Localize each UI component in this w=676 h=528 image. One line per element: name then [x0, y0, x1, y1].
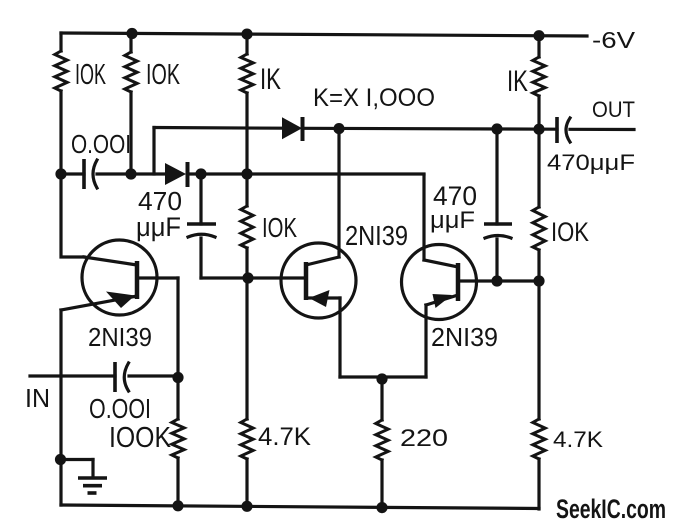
- capacitor C2 470uuF chain: [187, 174, 248, 278]
- label R8 220: [400, 425, 448, 452]
- wire: third branch from rail (1K): [245, 34, 248, 174]
- capacitor C1 0.001: [84, 159, 97, 189]
- label C3 470: [433, 181, 477, 211]
- label Q3 2N139: [431, 322, 498, 352]
- svg-text:μμF: μμF: [430, 207, 475, 234]
- capacitor C4 470uuF output: [557, 117, 570, 143]
- power rail -6V: [61, 33, 587, 36]
- label IN: [25, 383, 50, 413]
- node bias line y=174: [61, 172, 424, 175]
- diode D1: [165, 162, 188, 187]
- ground rail bottom: [61, 505, 539, 509]
- capacitor C3 470uuF right chain: [484, 129, 512, 281]
- diode D2: [282, 117, 303, 141]
- svg-text:O.OOI: O.OOI: [89, 393, 151, 424]
- label R6 10K: [551, 217, 589, 247]
- junction top-rail n1: [126, 28, 137, 39]
- label Q2 2N139: [345, 220, 408, 251]
- resistor R6 10K right: [537, 129, 540, 281]
- wire Q1 emitter to ground rail: [59, 310, 62, 505]
- junction bias n4: [55, 168, 66, 179]
- transistor Q3 2N139: [402, 175, 540, 320]
- svg-text:IK: IK: [260, 63, 281, 96]
- junction bias n5: [125, 168, 136, 179]
- label R2 10K: [146, 59, 180, 91]
- svg-text:OUT: OUT: [592, 97, 635, 122]
- feedback line y=129: [154, 128, 634, 175]
- K multiplier note: [313, 84, 435, 112]
- svg-text:IOOK: IOOK: [109, 422, 172, 454]
- wire: left branch from rail to node A: [59, 33, 62, 174]
- svg-text:IOK: IOK: [262, 212, 297, 243]
- label C2 470: [138, 186, 182, 216]
- svg-text:2NI39: 2NI39: [345, 220, 408, 251]
- resistor R3 1K: [241, 54, 253, 93]
- label R9 4.7K: [553, 427, 603, 452]
- junction Q3 collector n11: [491, 275, 502, 286]
- resistor R9 4.7K: [533, 419, 545, 459]
- junction Q3 collector n12: [533, 275, 544, 286]
- resistor R8 220: [376, 420, 388, 460]
- svg-text:O.OOI: O.OOI: [71, 129, 131, 159]
- junction Q2 base: [242, 272, 253, 283]
- svg-text:IOK: IOK: [551, 217, 589, 247]
- wire R7 branch: [245, 278, 248, 506]
- svg-text:470μμF: 470μμF: [547, 150, 635, 175]
- wire node to R8: [380, 377, 383, 508]
- junction rail n15: [376, 502, 387, 513]
- resistor R7 4.7K: [241, 419, 253, 459]
- junction top-rail n3: [533, 30, 544, 41]
- svg-text:4.7K: 4.7K: [258, 423, 311, 451]
- label C2 uuF: [136, 212, 181, 242]
- wire Q3 emitter down: [424, 305, 427, 377]
- label C1 0.001: [71, 129, 131, 159]
- label R10 100K: [109, 422, 172, 454]
- svg-text:IOK: IOK: [146, 59, 180, 91]
- label C4 470uuF: [547, 150, 635, 175]
- label Q1 2N139: [88, 322, 152, 352]
- input line: [30, 374, 178, 377]
- label R1 10K: [75, 59, 106, 91]
- svg-text:4.7K: 4.7K: [553, 427, 603, 452]
- svg-text:IK: IK: [507, 65, 528, 98]
- wire Q1 collector down: [176, 278, 179, 506]
- watermark SeekIC.com: [556, 494, 666, 524]
- wire Q2 emitter down: [338, 298, 341, 377]
- svg-text:IOK: IOK: [75, 59, 106, 91]
- wire Q2 collector up: [337, 129, 340, 257]
- resistor R1 10K: [55, 51, 67, 91]
- svg-text:μμF: μμF: [136, 212, 181, 242]
- label C5 0.001: [89, 393, 151, 424]
- transistor Q2 2N139: [248, 243, 356, 318]
- junction ground node: [55, 454, 66, 465]
- wire R9 branch: [537, 281, 540, 509]
- resistor R2 10K: [125, 52, 137, 92]
- label R4 10K: [262, 212, 297, 243]
- label C3 uuF: [430, 207, 475, 234]
- resistor R10 100K: [172, 419, 184, 458]
- svg-text:K=X I,OOO: K=X I,OOO: [313, 84, 435, 112]
- label R7 4.7K: [258, 423, 311, 451]
- transistor Q1 2N139: [61, 174, 178, 315]
- resistor R4 10K middle: [245, 174, 248, 278]
- svg-text:SeekIC.com: SeekIC.com: [556, 494, 666, 524]
- label R5 1K: [507, 65, 528, 98]
- -6V label: [592, 27, 636, 53]
- label OUT: [592, 97, 635, 122]
- svg-text:IN: IN: [25, 383, 50, 413]
- emitter join wire: [340, 375, 426, 378]
- junction rail n13: [172, 500, 183, 511]
- junction feedback n8: [333, 123, 344, 134]
- svg-text:220: 220: [400, 425, 448, 452]
- ground symbol: [61, 460, 108, 494]
- junction emitter join: [376, 373, 387, 384]
- capacitor C5 0.001 input: [115, 362, 129, 392]
- junction input node: [172, 372, 183, 383]
- junction top-rail n2: [241, 28, 252, 39]
- junction out n9: [491, 123, 502, 134]
- junction bias n6: [195, 168, 206, 179]
- junction rail n14: [241, 501, 252, 512]
- resistor R5 1K: [533, 57, 545, 96]
- svg-text:-6V: -6V: [592, 27, 636, 53]
- wire: right branch from rail (1K): [537, 35, 540, 129]
- junction bias n7: [241, 168, 252, 179]
- svg-text:2NI39: 2NI39: [431, 322, 498, 352]
- wire: second branch from rail: [129, 33, 132, 174]
- label R3 1K: [260, 63, 281, 96]
- svg-text:2NI39: 2NI39: [88, 322, 152, 352]
- junction out n10: [533, 124, 544, 135]
